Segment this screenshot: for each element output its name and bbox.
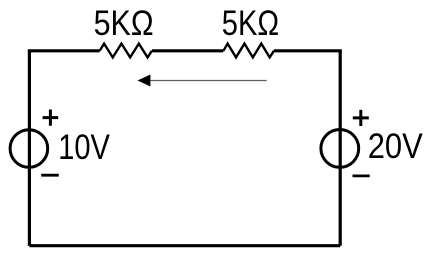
wire top-right segment <box>274 51 340 52</box>
voltage source V1 circle <box>10 130 48 168</box>
resistor R1 5KΩ <box>100 44 152 58</box>
wire right side <box>339 51 342 246</box>
svg-text:5KΩ: 5KΩ <box>222 4 279 43</box>
wire top-middle segment <box>152 49 224 52</box>
svg-text:20V: 20V <box>368 127 424 166</box>
wire top-left segment <box>29 51 99 52</box>
svg-text:5KΩ: 5KΩ <box>94 4 154 43</box>
current arrow line <box>149 80 267 82</box>
minus sign V2 <box>353 174 370 177</box>
minus sign V1 <box>41 174 59 177</box>
wire left side <box>28 51 31 246</box>
resistor R2 5KΩ <box>223 44 274 58</box>
plus sign V1 <box>43 110 59 126</box>
wire bottom <box>29 244 340 247</box>
plus sign V2 <box>353 110 369 126</box>
svg-text:10V: 10V <box>58 128 110 167</box>
current arrow head <box>138 75 151 87</box>
voltage source V2 circle <box>321 130 359 168</box>
